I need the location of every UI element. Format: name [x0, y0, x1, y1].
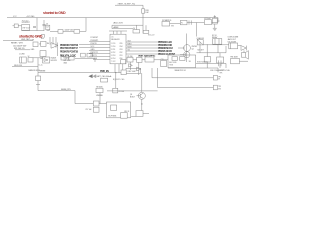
fuse F1	[180, 20, 187, 24]
wire	[207, 62, 220, 68]
net label PB3/MOSI	[158, 47, 173, 50]
wire	[112, 28, 133, 30]
pin label MISO	[128, 43, 133, 45]
svg-text:R2 470R: R2 470R	[64, 58, 71, 60]
svg-text:F1: F1	[181, 23, 183, 25]
net label PB4/MISO	[158, 44, 172, 47]
wire	[158, 68, 214, 88]
wire	[99, 93, 101, 104]
net label row 2	[60, 47, 78, 50]
node label VSENSE	[96, 95, 102, 97]
pin label MOSI	[128, 46, 133, 48]
IC U3 charger	[126, 68, 141, 73]
svg-text:LED RED: LED RED	[64, 60, 72, 62]
connector J3	[229, 43, 241, 49]
svg-text:J1 USB: J1 USB	[19, 53, 24, 55]
capacitor C24	[121, 60, 126, 70]
wire	[115, 5, 143, 8]
svg-text:AVCC 3V3: AVCC 3V3	[114, 22, 123, 25]
node junction	[115, 72, 116, 73]
value label charger	[108, 116, 116, 118]
wire	[141, 99, 142, 110]
svg-text:shorted to GND: shorted to GND	[43, 11, 66, 15]
svg-text:C10 100nF 50V: C10 100nF 50V	[13, 45, 27, 47]
transistor Q2	[178, 45, 190, 52]
capacitor C9	[33, 42, 41, 47]
value label U3	[113, 79, 125, 81]
svg-text:R24 4K7: R24 4K7	[198, 50, 204, 52]
module outline charger	[106, 102, 130, 118]
resistor R20	[142, 9, 150, 14]
svg-text:PD6: PD6	[94, 58, 98, 60]
ground	[213, 24, 217, 30]
value label Q3	[130, 94, 135, 98]
capacitor C8	[189, 20, 191, 24]
wire	[57, 43, 59, 57]
wire	[197, 42, 227, 53]
value label right	[228, 37, 239, 44]
test point TP3	[213, 85, 221, 90]
svg-text:1 PC6: 1 PC6	[111, 43, 115, 45]
svg-text:PD2/INT0 PCINT18: PD2/INT0 PCINT18	[60, 50, 79, 53]
capacitor C21	[81, 53, 86, 57]
svg-text:100nF 16V: 100nF 16V	[65, 29, 75, 31]
wire	[196, 23, 198, 37]
wire	[115, 64, 119, 73]
net label PB5/SCK	[158, 41, 172, 44]
svg-text:TP1: TP1	[220, 72, 223, 74]
svg-text:ISENSE: ISENSE	[40, 71, 46, 73]
wire	[112, 25, 143, 28]
wire	[126, 47, 158, 49]
capacitor C23	[161, 59, 167, 67]
svg-text:PD4/T0: PD4/T0	[91, 43, 97, 45]
svg-text:GND PLANE STITCH VIA: GND PLANE STITCH VIA	[210, 69, 230, 72]
value label Q2	[192, 46, 198, 51]
pin name GND	[91, 49, 96, 51]
wire	[12, 63, 38, 91]
svg-text:BATT_CHG 500mA: BATT_CHG 500mA	[97, 75, 113, 78]
capacitor C19	[69, 57, 75, 60]
capacitor C11	[204, 53, 210, 62]
regulator U2	[22, 20, 31, 30]
svg-text:PD5/T1: PD5/T1	[91, 55, 97, 57]
wire	[152, 68, 213, 78]
node label R-row1	[31, 39, 35, 41]
svg-text:5 PD3: 5 PD3	[111, 55, 115, 57]
wire PWR bus	[38, 72, 130, 74]
transistor Q4	[197, 37, 205, 45]
node label VOUT	[197, 62, 208, 64]
pin name VCC	[91, 46, 95, 48]
diode D5	[137, 62, 141, 75]
relay K1	[212, 35, 222, 44]
svg-text:1N4148: 1N4148	[51, 58, 57, 60]
test point TP2	[213, 75, 221, 80]
svg-text:PB1: PB1	[120, 55, 123, 57]
svg-text:TP3: TP3	[218, 86, 221, 88]
svg-text:TP2: TP2	[218, 76, 221, 78]
net label row 4	[60, 55, 76, 58]
svg-text:GND: GND	[91, 49, 96, 51]
wire	[126, 53, 158, 55]
pin name PD5	[91, 55, 97, 57]
capacitor C2	[42, 20, 45, 31]
wire	[89, 56, 110, 58]
svg-text:2N7002: 2N7002	[192, 46, 198, 48]
wire	[99, 103, 107, 105]
capacitor C4	[50, 30, 63, 34]
svg-text:BQ24075 CHG: BQ24075 CHG	[113, 79, 125, 81]
svg-text:+3V3 RAIL: +3V3 RAIL	[26, 15, 35, 18]
svg-text:0805: 0805	[64, 62, 68, 64]
svg-text:shorted to GND: shorted to GND	[19, 35, 43, 39]
svg-text:RSSI: RSSI	[169, 64, 173, 66]
pin name PC6	[91, 37, 99, 39]
capacitor C12	[217, 53, 224, 63]
wire	[115, 73, 117, 89]
resistor R5	[127, 57, 133, 62]
node DTR label	[13, 45, 27, 47]
svg-text:SENSE_RTN: SENSE_RTN	[61, 89, 71, 91]
pin label SS	[128, 49, 130, 51]
resistor R9	[113, 88, 125, 93]
node label BATT_CHG	[97, 75, 113, 78]
svg-text:5V: 5V	[218, 79, 220, 81]
wire	[131, 113, 149, 116]
svg-text:SOD323: SOD323	[51, 60, 57, 62]
resistor R6	[142, 57, 168, 62]
wire	[196, 62, 215, 64]
node RESET label	[11, 42, 23, 44]
wire	[126, 41, 158, 43]
svg-text:PB7/XT2: PB7/XT2	[91, 52, 98, 54]
pin name PB7	[91, 52, 98, 54]
resistor R7	[121, 70, 126, 75]
svg-text:D+ D-: D+ D-	[39, 65, 43, 67]
node SLEEP_RQ label	[118, 3, 136, 5]
wire	[79, 47, 110, 49]
wire	[33, 58, 43, 63]
wire	[38, 89, 75, 91]
net label PB2/SS	[158, 50, 172, 53]
annotation shorted to GND (top)	[43, 11, 66, 15]
wire	[126, 44, 158, 46]
diode D4	[129, 62, 133, 70]
svg-text:PB1/OC1A PCINT: PB1/OC1A PCINT	[158, 53, 176, 56]
capacitor C6	[133, 25, 140, 33]
svg-text:3V3: 3V3	[218, 88, 221, 90]
svg-text:C3: C3	[46, 24, 48, 26]
svg-text:RESET / DTR: RESET / DTR	[11, 42, 23, 44]
wire	[142, 13, 144, 33]
svg-text:GND_NET: GND_NET	[21, 39, 31, 41]
inductor L1	[204, 18, 212, 24]
wire	[225, 63, 227, 68]
svg-text:U2 MCP17: U2 MCP17	[22, 22, 30, 24]
svg-text:PC6/RST: PC6/RST	[91, 37, 99, 39]
wire	[75, 58, 95, 62]
svg-text:PB3: PB3	[120, 49, 123, 51]
svg-text:PWR_EN: PWR_EN	[100, 71, 109, 73]
capacitor C7	[143, 25, 149, 33]
svg-text:MOSI: MOSI	[128, 46, 133, 48]
svg-text:3 PD1: 3 PD1	[111, 49, 115, 51]
capacitor C5	[63, 30, 86, 34]
svg-text:RST: RST	[41, 38, 44, 40]
node GND net label	[3, 39, 33, 41]
value label D1	[51, 58, 57, 62]
pin name PD4	[91, 43, 97, 45]
svg-text:4u7: 4u7	[46, 26, 49, 28]
wire	[186, 34, 188, 63]
resistor R12	[41, 41, 50, 46]
wire	[107, 90, 158, 92]
annotation shorted to GND (left)	[19, 35, 43, 39]
wire	[22, 30, 45, 32]
wire	[109, 31, 127, 34]
net label VBAT_SW	[138, 55, 156, 58]
wire	[89, 53, 110, 55]
value label module	[175, 70, 186, 72]
svg-text:Q3: Q3	[130, 94, 132, 96]
capacitor C18	[61, 57, 66, 60]
transistor Q3	[137, 73, 146, 99]
module A1 outline	[168, 55, 196, 68]
wire	[75, 91, 93, 104]
wire	[212, 18, 218, 23]
node label R-row2	[31, 49, 36, 51]
pin name PD6	[94, 58, 98, 60]
wire	[93, 59, 110, 61]
svg-text:R11 2K: R11 2K	[124, 111, 129, 113]
capacitor C16	[93, 101, 99, 106]
wire	[36, 18, 38, 31]
svg-text:MBR0520 SS14: MBR0520 SS14	[29, 70, 41, 72]
value label D1 row	[29, 70, 41, 72]
wire	[15, 49, 30, 51]
net label row 1	[60, 44, 79, 47]
wire	[85, 18, 87, 32]
svg-text:3V3 LDO: 3V3 LDO	[22, 20, 29, 22]
resistor R4	[101, 78, 108, 82]
svg-text:PD3/INT1: PD3/INT1	[91, 40, 99, 42]
node VBAT labels	[46, 26, 50, 31]
value label R5	[127, 56, 132, 58]
node AVCC label	[114, 22, 123, 25]
net label row 3	[60, 50, 79, 53]
node label VD	[39, 65, 43, 67]
wire	[187, 22, 204, 24]
value label R2	[64, 58, 72, 65]
node RX label	[14, 48, 25, 50]
node label DOUT	[220, 70, 225, 74]
capacitor C20	[40, 51, 46, 60]
svg-text:VIN VOUT: VIN VOUT	[22, 27, 30, 29]
capacitor C1	[33, 26, 36, 27]
diode D2	[162, 20, 180, 28]
ferrite FB1	[231, 57, 249, 64]
capacitor C15	[215, 60, 226, 66]
resistor R11	[124, 111, 143, 117]
wire	[243, 50, 245, 52]
connector J1	[19, 53, 29, 63]
svg-text:Q2: Q2	[192, 49, 194, 51]
value 0.1uF	[65, 29, 75, 31]
pin label SCK	[128, 40, 132, 42]
capacitor C17	[85, 107, 99, 112]
resistor R8	[96, 87, 104, 93]
value label R24	[198, 50, 204, 52]
svg-text:6 PD4: 6 PD4	[111, 58, 115, 60]
wire	[36, 84, 40, 86]
diode D1	[43, 57, 50, 63]
capacitor C22	[87, 53, 92, 57]
svg-text:BC817: BC817	[130, 97, 135, 99]
svg-text:XBEE PRO S1: XBEE PRO S1	[175, 70, 186, 72]
resistor R10	[121, 113, 128, 119]
svg-text:4 PD2: 4 PD2	[111, 52, 115, 54]
node label VBUS	[14, 65, 22, 67]
svg-text:PB2: PB2	[120, 52, 123, 54]
svg-text:PB5: PB5	[120, 43, 123, 45]
crystal Y1	[13, 24, 22, 28]
capacitor C14	[133, 57, 142, 62]
svg-text:SS: SS	[128, 49, 130, 51]
speaker LS1	[241, 51, 248, 60]
wire	[203, 44, 229, 46]
svg-text:VCC_IO: VCC_IO	[148, 35, 155, 37]
wire	[79, 44, 110, 46]
wire	[89, 50, 110, 52]
node label row	[210, 69, 230, 72]
net label PWR_EN	[100, 71, 109, 73]
svg-text:PB4: PB4	[120, 46, 123, 48]
transistor Q1	[51, 43, 58, 49]
capacitor C3	[46, 24, 50, 30]
svg-text:MEGA328: MEGA328	[111, 38, 119, 41]
svg-text:XB: XB	[189, 61, 191, 63]
node C9 stub	[41, 35, 45, 38]
svg-text:C17 1uF: C17 1uF	[85, 109, 91, 111]
wire	[89, 41, 110, 43]
diode D3	[241, 46, 246, 51]
node arrow	[88, 74, 96, 78]
svg-text:MCP73831: MCP73831	[108, 116, 116, 118]
connector J2	[213, 15, 220, 24]
node VCC label top	[148, 35, 155, 37]
IC U1	[110, 34, 126, 64]
wire	[41, 37, 56, 48]
resistor R1	[28, 58, 33, 62]
pin name PD3	[91, 40, 99, 42]
wire	[126, 50, 158, 52]
resistor R3	[36, 76, 41, 81]
svg-text:2 PD0: 2 PD0	[111, 46, 115, 48]
node AREF label	[114, 26, 120, 29]
node label ISENSE	[40, 71, 46, 73]
transistor Q5	[180, 52, 190, 58]
wire	[168, 68, 218, 72]
svg-text:R8 100K: R8 100K	[96, 87, 103, 89]
svg-text:VSENSE: VSENSE	[96, 95, 102, 97]
wire VCC rail	[7, 15, 218, 18]
net label PB1	[158, 53, 176, 56]
